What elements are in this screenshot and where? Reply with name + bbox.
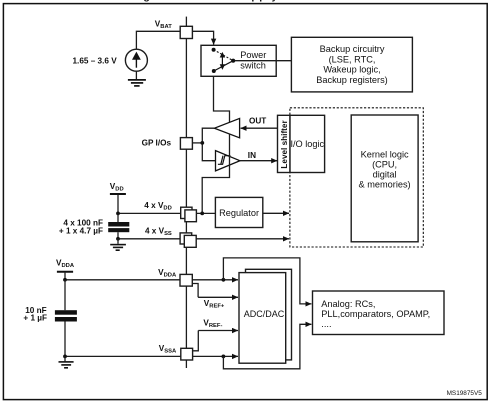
node VDDA left junction — [63, 278, 67, 282]
wire: VREF- branch — [193, 331, 198, 351]
wire: cap stubs — [117, 213, 119, 222]
wire: GPIO pin to node — [192, 142, 202, 144]
voltage source V1 — [125, 49, 147, 71]
svg-text:Power: Power — [240, 50, 266, 60]
power rail VDDA — [57, 272, 73, 280]
svg-text:....: .... — [321, 319, 331, 329]
ADC/DAC block (front) — [239, 273, 286, 364]
svg-text:Level shifter: Level shifter — [280, 120, 289, 169]
power rail VDD — [110, 194, 126, 213]
svg-text:4 x VSS: 4 x VSS — [145, 227, 172, 238]
svg-text:VDDA: VDDA — [56, 259, 75, 270]
svg-text:Kernel logic: Kernel logic — [361, 149, 409, 159]
regulator box — [215, 197, 262, 227]
capacitor C1 (VDD decoupling) — [108, 222, 129, 232]
wire: VDDA cap stubs — [64, 280, 66, 310]
wire: VREF+ to ADC with arrow — [198, 296, 238, 298]
op-amp buffer OUT (triangle) — [214, 118, 239, 137]
ground (VDD cap) — [110, 245, 126, 251]
ground (source) — [128, 80, 146, 86]
kernel logic box — [351, 115, 418, 242]
svg-text:switch: switch — [240, 60, 266, 70]
svg-text:Backup circuitry: Backup circuitry — [320, 44, 385, 54]
svg-text:4 x VDD: 4 x VDD — [144, 201, 172, 212]
svg-text:VREF+: VREF+ — [204, 299, 225, 310]
wire: VSS line — [118, 238, 180, 240]
node regulator junction — [200, 212, 204, 216]
wire: VSSA loop to analog box — [223, 324, 311, 369]
svg-text:& memories): & memories) — [359, 180, 411, 190]
power switch toggle double arrow — [220, 52, 225, 70]
wire: level shifter to OUT buffer with arrow — [241, 127, 278, 129]
ADC/DAC stacked block (back) — [246, 269, 292, 360]
level shifter box — [278, 115, 291, 172]
svg-text:VDD: VDD — [110, 182, 124, 193]
svg-text:VREF-: VREF- — [203, 319, 222, 330]
wire: VDD pin to regulator — [196, 212, 215, 214]
label kernel logic — [359, 149, 411, 189]
label analog box — [321, 299, 430, 329]
wire: VDD rail to pin — [118, 212, 181, 214]
power switch box — [201, 45, 276, 76]
wire: regulator to kernel with arrow — [263, 212, 289, 214]
pin 4 x VSS (double) — [180, 233, 196, 247]
hysteresis symbol — [218, 156, 231, 165]
wire: power switch to backup circuitry — [235, 60, 291, 62]
svg-text:GP I/Os: GP I/Os — [142, 139, 172, 148]
wire: VDDA pin to ADC with arrow — [192, 279, 238, 281]
svg-text:+ 1 x 4.7 µF: + 1 x 4.7 µF — [59, 227, 103, 236]
wire: VREF- to ADC with arrow — [198, 330, 238, 332]
node VDDA adc junction — [222, 278, 226, 282]
wire: VDDA loop to analog box — [223, 258, 311, 304]
svg-text:VDDA: VDDA — [158, 268, 177, 279]
wire: power switch bottom to OUT buffer supply — [214, 76, 230, 122]
svg-text:I/O logic: I/O logic — [290, 139, 324, 149]
svg-text:VBAT: VBAT — [155, 20, 172, 31]
svg-text:ADC/DAC: ADC/DAC — [244, 309, 285, 319]
pin VSSA — [181, 348, 193, 360]
svg-text:1.65 – 3.6 V: 1.65 – 3.6 V — [73, 56, 118, 65]
wire: OUT buffer apex to GPIO node — [202, 128, 215, 161]
wire: VREF+ branch — [193, 284, 198, 298]
wire: VBAT to source — [136, 31, 180, 49]
power switch contacts and lever — [212, 48, 236, 73]
svg-text:(LSE, RTC,: (LSE, RTC, — [329, 54, 376, 64]
node VDD junction — [116, 212, 120, 216]
pin VDDA — [180, 274, 192, 286]
pin 4 x VDD (double) — [181, 207, 197, 222]
wire: main vertical bus — [185, 38, 187, 368]
wire: IN buffer to level shifter with arrow — [240, 160, 277, 162]
pin GP I/Os — [180, 138, 192, 150]
backup circuitry box — [291, 37, 412, 92]
wire: VSSA line — [65, 355, 181, 357]
svg-text:MS19875V5: MS19875V5 — [447, 390, 483, 397]
node VSSA adc junction — [222, 355, 226, 359]
svg-text:VSSA: VSSA — [159, 344, 177, 355]
I/O logic box — [290, 115, 325, 172]
wire: gnd stub — [117, 239, 119, 244]
wire: VSS pin to kernel with arrow — [196, 238, 289, 240]
svg-text:IN: IN — [248, 151, 256, 160]
wire: stub above VBAT pin — [185, 17, 187, 27]
pin VBAT — [180, 26, 192, 38]
wire: VBAT to power switch — [192, 31, 213, 44]
svg-text:Backup registers): Backup registers) — [316, 75, 388, 85]
wire: VDDA rail to pin — [65, 279, 180, 281]
svg-text:(CPU,: (CPU, — [372, 159, 397, 169]
svg-text:Figure 8. Power supply scheme: Figure 8. Power supply scheme — [131, 0, 331, 3]
wire: buffer supply down to VDD line — [202, 134, 229, 213]
svg-text:+ 1 µF: + 1 µF — [23, 314, 47, 323]
wire: gnd stub VSSA — [64, 356, 66, 361]
svg-text:Wakeup logic,: Wakeup logic, — [323, 65, 380, 75]
svg-text:digital: digital — [373, 170, 397, 180]
node VSS junction — [116, 237, 120, 241]
svg-text:Regulator: Regulator — [219, 208, 259, 218]
wire: VSSA pin to ADC with arrow — [193, 355, 238, 357]
svg-text:Analog: RCs,: Analog: RCs, — [321, 299, 375, 309]
node GPIO junction — [200, 141, 204, 145]
node VSSA left junction — [63, 355, 67, 359]
schmitt trigger buffer IN (triangle) — [216, 151, 240, 171]
analog peripherals box — [313, 291, 445, 335]
label backup circuitry — [316, 44, 388, 85]
capacitor C2 (VDDA decoupling) — [55, 310, 77, 321]
svg-text:PLL,comparators, OPAMP,: PLL,comparators, OPAMP, — [321, 309, 430, 319]
svg-text:OUT: OUT — [249, 117, 266, 126]
dashed core domain box — [290, 108, 423, 247]
ground (VSSA) — [59, 362, 74, 368]
wire: source to ground — [135, 71, 137, 79]
